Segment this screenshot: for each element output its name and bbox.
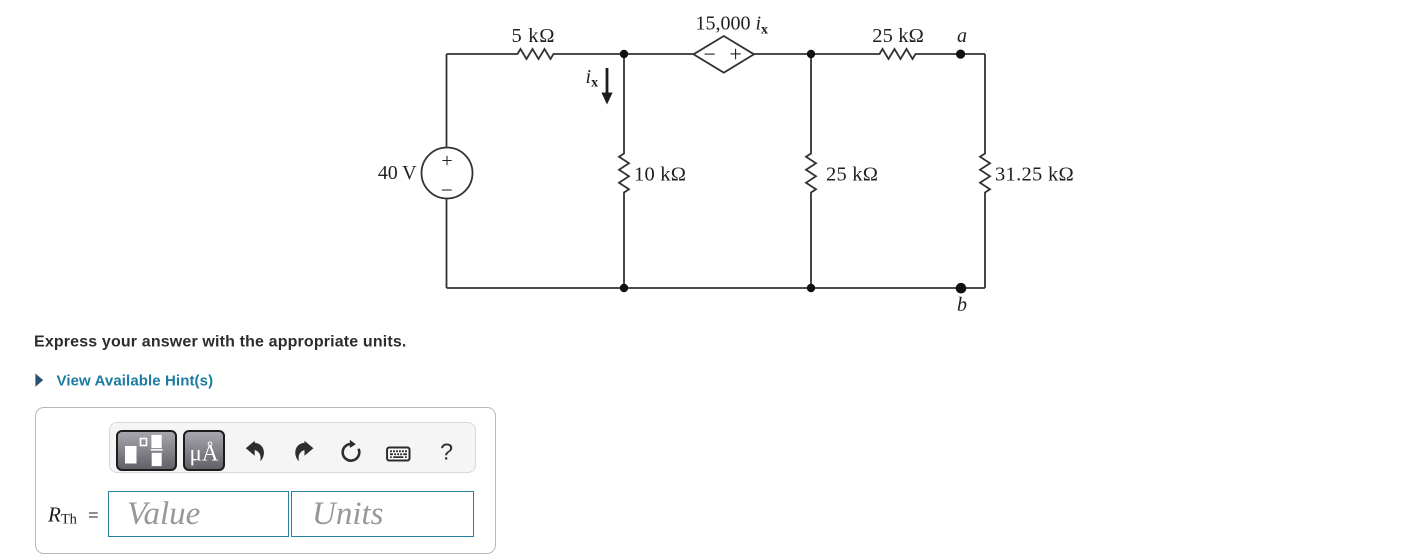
svg-text:5 kΩ: 5 kΩ xyxy=(512,25,555,47)
svg-text:15,000 ix: 15,000 ix xyxy=(696,13,769,38)
svg-text:40 V: 40 V xyxy=(378,162,417,184)
svg-text:+: + xyxy=(441,150,452,172)
svg-text:Express your answer with the a: Express your answer with the appropriate… xyxy=(34,334,406,351)
svg-text:+: + xyxy=(729,41,741,66)
svg-text:View Available Hint(s): View Available Hint(s) xyxy=(57,373,214,390)
svg-text:ix: ix xyxy=(586,66,599,91)
svg-text:−: − xyxy=(441,178,453,202)
svg-text:25 kΩ: 25 kΩ xyxy=(872,25,924,47)
svg-text:μÅ: μÅ xyxy=(190,441,219,466)
svg-text:Value: Value xyxy=(127,496,200,532)
svg-text:b: b xyxy=(957,294,967,316)
svg-text:Units: Units xyxy=(312,496,384,532)
svg-text:31.25 kΩ: 31.25 kΩ xyxy=(995,163,1074,185)
svg-text:RTh: RTh xyxy=(47,503,78,528)
svg-text:−: − xyxy=(704,42,716,67)
svg-text:25 kΩ: 25 kΩ xyxy=(826,163,878,185)
svg-text:10 kΩ: 10 kΩ xyxy=(634,163,686,185)
svg-text:?: ? xyxy=(440,439,453,465)
svg-text:a: a xyxy=(957,25,967,47)
svg-text:=: = xyxy=(88,506,99,527)
